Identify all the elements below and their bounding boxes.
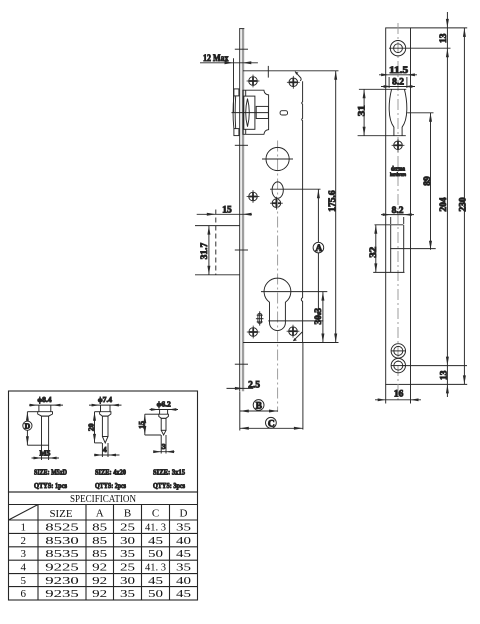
svg-text:50: 50 xyxy=(148,548,164,560)
svg-text:35: 35 xyxy=(120,588,136,600)
adjustment screw symbol xyxy=(256,311,264,325)
strike plate top cutout xyxy=(358,89,407,135)
svg-text:204: 204 xyxy=(439,197,449,212)
svg-text:40: 40 xyxy=(176,575,192,587)
svg-text:QTYS: 2pcs: QTYS: 2pcs xyxy=(95,481,126,490)
svg-text:3: 3 xyxy=(162,442,166,451)
euro cylinder hole xyxy=(261,278,327,330)
svg-text:30: 30 xyxy=(120,575,136,587)
svg-text:41. 3: 41. 3 xyxy=(145,562,166,574)
screw 4x20 drawing xyxy=(87,395,127,490)
dimension 16 xyxy=(375,384,421,403)
screw head mid-left xyxy=(247,190,260,203)
corner edge mark top-right xyxy=(295,72,301,81)
dimension 32 xyxy=(369,225,379,273)
svg-text:45: 45 xyxy=(148,575,164,587)
svg-text:92: 92 xyxy=(92,588,107,600)
svg-text:4: 4 xyxy=(103,445,107,454)
svg-text:D: D xyxy=(180,508,188,520)
dimension A xyxy=(313,189,324,321)
svg-text:8535: 8535 xyxy=(45,548,79,560)
svg-text:85: 85 xyxy=(92,548,108,560)
lock case outline xyxy=(243,71,339,343)
latch housing xyxy=(243,90,269,134)
screws box xyxy=(9,391,198,492)
svg-text:11.5: 11.5 xyxy=(389,66,408,76)
svg-text:9235: 9235 xyxy=(45,588,79,600)
svg-text:45: 45 xyxy=(176,548,192,560)
svg-text:12 Max: 12 Max xyxy=(203,54,229,64)
dimension 13 top / 204 / 13 bottom xyxy=(439,12,449,397)
svg-text:hardware: hardware xyxy=(390,173,407,178)
dimension 31 xyxy=(358,89,368,135)
svg-text:A: A xyxy=(315,244,322,254)
frame cutout 31.7 xyxy=(195,226,240,275)
svg-text:40: 40 xyxy=(176,535,192,547)
svg-text:35: 35 xyxy=(120,548,136,560)
svg-text:92: 92 xyxy=(92,562,107,574)
svg-text:QTYS: 3pcs: QTYS: 3pcs xyxy=(153,481,185,490)
svg-text:B: B xyxy=(124,508,131,520)
svg-text:SIZE: 4x20: SIZE: 4x20 xyxy=(95,468,126,477)
svg-text:41. 3: 41. 3 xyxy=(145,521,166,533)
dimension 2.5 xyxy=(227,380,261,390)
dimension 12 Max xyxy=(200,54,258,113)
svg-text:13: 13 xyxy=(439,33,449,43)
svg-text:2.5: 2.5 xyxy=(248,380,260,390)
svg-text:1: 1 xyxy=(20,521,26,533)
oval hole xyxy=(270,182,321,198)
dimension 230 xyxy=(458,28,468,385)
svg-text:ϕ8.4: ϕ8.4 xyxy=(37,395,51,404)
screw M5 drawing xyxy=(23,395,68,490)
svg-text:8525: 8525 xyxy=(45,521,79,533)
screw head bottom-left xyxy=(247,326,260,339)
svg-text:4: 4 xyxy=(20,562,26,574)
table text xyxy=(20,493,191,600)
svg-text:SIZE: M5xD: SIZE: M5xD xyxy=(34,468,67,477)
strike plate lower slot xyxy=(373,225,436,273)
svg-text:ϕ6.2: ϕ6.2 xyxy=(157,400,171,409)
svg-text:30.3: 30.3 xyxy=(314,308,324,325)
svg-text:45: 45 xyxy=(176,588,192,600)
svg-text:50: 50 xyxy=(148,588,164,600)
svg-text:230: 230 xyxy=(458,197,468,212)
svg-text:92: 92 xyxy=(92,575,107,587)
svg-text:C: C xyxy=(152,508,159,520)
svg-text:35: 35 xyxy=(176,562,192,574)
corner edge mark bottom-right xyxy=(293,332,302,341)
dimension C xyxy=(240,343,303,430)
latch bolt (left of faceplate) xyxy=(233,89,239,136)
screw head bottom-right xyxy=(287,325,300,338)
screw head centre xyxy=(270,197,283,210)
svg-text:25: 25 xyxy=(120,562,136,574)
svg-text:2: 2 xyxy=(20,535,26,547)
extension lines right xyxy=(403,28,467,385)
vertical centreline xyxy=(277,141,279,412)
svg-text:31.7: 31.7 xyxy=(200,242,210,259)
faceplate xyxy=(239,29,244,392)
brand mark xyxy=(390,167,407,179)
svg-text:QTYS: 1pcs: QTYS: 1pcs xyxy=(34,481,67,490)
spindle hole xyxy=(262,147,293,170)
svg-text:6: 6 xyxy=(20,588,26,600)
dimension B xyxy=(240,392,278,431)
faceplate hole ticks xyxy=(235,49,248,364)
svg-text:ϕ7.4: ϕ7.4 xyxy=(98,395,112,404)
svg-text:35: 35 xyxy=(176,521,192,533)
latch centreline xyxy=(232,112,269,114)
dimension 175.6 xyxy=(328,71,338,343)
svg-text:A: A xyxy=(96,508,104,520)
svg-text:175.6: 175.6 xyxy=(328,190,338,212)
svg-text:C: C xyxy=(268,420,275,430)
strike plate outline xyxy=(386,23,411,400)
specification table xyxy=(9,492,198,600)
svg-text:9225: 9225 xyxy=(45,562,79,574)
dimension 11.5 xyxy=(379,66,417,88)
screw head top-right xyxy=(287,76,300,89)
dimension 8.2 top xyxy=(381,78,415,88)
svg-text:derma: derma xyxy=(391,167,405,173)
svg-text:5: 5 xyxy=(20,575,26,587)
svg-text:SIZE: 3x15: SIZE: 3x15 xyxy=(153,468,185,477)
small slot in case xyxy=(280,111,287,115)
svg-text:89: 89 xyxy=(423,176,433,186)
svg-text:20: 20 xyxy=(87,423,96,431)
svg-text:B: B xyxy=(256,402,263,412)
svg-text:15: 15 xyxy=(222,205,232,215)
dimension 89 xyxy=(407,113,433,250)
svg-text:13: 13 xyxy=(440,370,450,380)
svg-text:8530: 8530 xyxy=(45,535,79,547)
case top centre tick xyxy=(267,66,269,78)
strike plate top hole xyxy=(389,41,407,56)
svg-text:32: 32 xyxy=(369,247,379,258)
svg-text:85: 85 xyxy=(92,521,108,533)
svg-text:9230: 9230 xyxy=(45,575,79,587)
screw 3x15 drawing xyxy=(137,400,185,491)
svg-text:D: D xyxy=(25,422,31,431)
svg-text:85: 85 xyxy=(92,535,108,547)
dimension 8.2 mid xyxy=(381,206,414,224)
svg-text:30: 30 xyxy=(120,535,136,547)
svg-text:15: 15 xyxy=(137,421,146,429)
screw head top-left xyxy=(247,75,260,88)
svg-text:8.2: 8.2 xyxy=(392,78,404,88)
svg-text:SIZE: SIZE xyxy=(50,508,73,520)
dimension 15 xyxy=(197,205,252,274)
strike plate bottom holes xyxy=(391,344,406,373)
svg-text:16: 16 xyxy=(394,390,404,400)
svg-text:SPECIFICATION: SPECIFICATION xyxy=(70,493,136,505)
svg-text:31: 31 xyxy=(358,105,368,116)
svg-text:45: 45 xyxy=(148,535,164,547)
svg-text:8.2: 8.2 xyxy=(392,206,404,216)
svg-text:3: 3 xyxy=(20,548,26,560)
dimension 30.3 xyxy=(314,292,324,343)
svg-text:25: 25 xyxy=(120,521,136,533)
strike plate screw hole xyxy=(392,139,405,152)
